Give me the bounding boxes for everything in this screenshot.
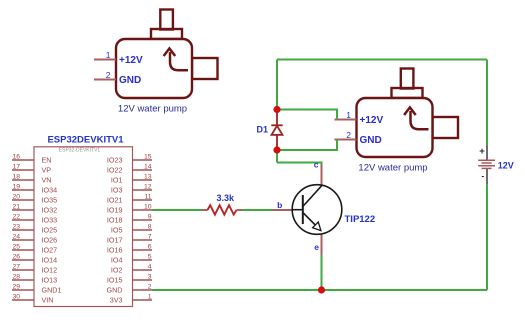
- svg-text:11: 11: [144, 194, 151, 201]
- svg-text:IO16: IO16: [107, 245, 123, 254]
- svg-text:21: 21: [13, 204, 21, 211]
- svg-text:b: b: [277, 200, 282, 210]
- M1 pin 1 label +12V: [119, 55, 143, 66]
- ESP32 pin 6 (IO16): [107, 244, 152, 255]
- ESP32 pin 25 (IO27): [12, 244, 57, 255]
- svg-text:1: 1: [346, 110, 351, 120]
- svg-text:IO13: IO13: [42, 275, 58, 284]
- svg-text:14: 14: [144, 164, 152, 171]
- svg-text:7: 7: [148, 234, 152, 241]
- ESP32 module body ESP32DEVKITV1: [34, 147, 133, 307]
- transistor Q1 name label TIP122: [345, 214, 376, 225]
- resistor R1 3.3k: [202, 205, 242, 214]
- svg-text:IO14: IO14: [42, 255, 58, 264]
- wire to transistor collector: [277, 163, 322, 166]
- svg-text:GND: GND: [119, 75, 141, 86]
- svg-text:IO35: IO35: [42, 195, 58, 204]
- svg-text:29: 29: [13, 284, 21, 291]
- svg-text:1: 1: [106, 50, 111, 60]
- wire diode cathode node to pump M2 pin1: [277, 110, 337, 120]
- svg-text:2: 2: [106, 70, 111, 80]
- ESP32 pin 18 (VN): [12, 174, 52, 185]
- transistor Q1 TIP122 symbol: [292, 185, 342, 235]
- svg-text:25: 25: [13, 244, 21, 251]
- svg-text:27: 27: [13, 264, 21, 271]
- ESP32 pin 13 (IO1): [111, 174, 152, 185]
- motor M1 12V water pump body: [116, 10, 218, 99]
- M1 caption 12V water pump: [118, 104, 187, 115]
- ESP32 pin 14 (IO22): [107, 164, 152, 175]
- svg-text:GND1: GND1: [42, 285, 62, 294]
- svg-text:3.3k: 3.3k: [217, 193, 236, 203]
- svg-text:TIP122: TIP122: [345, 214, 376, 225]
- junction node diode anode / pump M2 pin2 / collector: [273, 146, 280, 153]
- svg-text:2: 2: [346, 130, 351, 140]
- svg-text:IO32: IO32: [42, 205, 58, 214]
- M1 pin 2 (GND) lead: [94, 70, 116, 80]
- svg-text:VN: VN: [42, 175, 52, 184]
- svg-text:+12V: +12V: [119, 55, 143, 66]
- transistor Q1 emitter lead: [321, 234, 323, 256]
- svg-text:IO33: IO33: [42, 215, 58, 224]
- svg-text:-: -: [482, 172, 485, 181]
- diode D1 label: [257, 125, 269, 135]
- ESP32 pin 9 (IO18): [107, 214, 152, 225]
- svg-text:IO3: IO3: [111, 185, 123, 194]
- ESP32 pin 2 (GND): [107, 284, 152, 295]
- svg-text:IO26: IO26: [42, 235, 58, 244]
- svg-text:VIN: VIN: [42, 295, 54, 304]
- wire transistor emitter to ground rail: [321, 255, 323, 290]
- wire battery positive up: [486, 60, 488, 146]
- ESP32 pin 12 (IO3): [111, 184, 152, 195]
- ESP32 pin 23 (IO25): [12, 224, 57, 235]
- svg-text:IO19: IO19: [107, 205, 123, 214]
- ESP32 pin 28 (IO13): [12, 274, 57, 285]
- battery BT1 12V: [478, 146, 495, 185]
- M2 pin 1 label +12V: [360, 115, 384, 126]
- svg-text:9: 9: [148, 214, 152, 221]
- svg-text:16: 16: [13, 154, 21, 161]
- svg-text:18: 18: [13, 174, 21, 181]
- svg-text:28: 28: [13, 274, 21, 281]
- svg-text:IO23: IO23: [107, 155, 123, 164]
- ESP32 pin 15 (IO23): [107, 154, 152, 165]
- svg-text:ESP32DEVKITV1: ESP32DEVKITV1: [47, 134, 124, 145]
- ESP32 pin 26 (IO14): [12, 254, 57, 265]
- ESP32 pin 30 (VIN): [12, 294, 53, 305]
- ESP32 pin 24 (IO26): [12, 234, 57, 245]
- svg-text:30: 30: [13, 294, 21, 301]
- svg-text:IO27: IO27: [42, 245, 58, 254]
- svg-text:12V water pump: 12V water pump: [118, 104, 187, 115]
- ESP32 pin 3 (IO15): [107, 274, 152, 285]
- svg-text:1: 1: [148, 294, 152, 301]
- motor M2 12V water pump body: [357, 69, 459, 158]
- ESP32 pin 11 (IO21): [107, 194, 152, 205]
- svg-text:IO25: IO25: [42, 225, 58, 234]
- M2 pin 1 (+12V) lead: [335, 110, 357, 120]
- svg-text:12: 12: [144, 184, 152, 191]
- svg-text:IO12: IO12: [42, 265, 58, 274]
- svg-text:15: 15: [144, 154, 152, 161]
- wire battery negative to ground rail: [486, 184, 488, 290]
- resistor R1 value label 3.3k: [217, 193, 236, 203]
- svg-text:+: +: [479, 146, 485, 157]
- wire +12V down to diode cathode node: [276, 60, 278, 110]
- svg-text:10: 10: [144, 204, 152, 211]
- ESP32 pin 22 (IO33): [12, 214, 57, 225]
- svg-text:IO5: IO5: [111, 225, 123, 234]
- wire resistor to transistor base: [242, 209, 273, 211]
- svg-text:ESP32-DEVKITV1: ESP32-DEVKITV1: [59, 148, 101, 154]
- ESP32 pin 20 (IO35): [12, 194, 57, 205]
- svg-text:GND: GND: [360, 135, 382, 146]
- transistor Q1 base lead: [273, 209, 294, 211]
- ESP32 pin 4 (IO2): [111, 264, 152, 275]
- svg-text:3V3: 3V3: [110, 295, 123, 304]
- svg-text:5: 5: [148, 254, 152, 261]
- svg-text:+12V: +12V: [360, 115, 384, 126]
- svg-text:IO34: IO34: [42, 185, 58, 194]
- wire ground rail: [152, 289, 487, 291]
- transistor Q1 pin label c: [314, 159, 319, 169]
- M2 caption 12V water pump: [358, 163, 427, 174]
- svg-text:IO1: IO1: [111, 175, 123, 184]
- M2 rotation arrow: [404, 107, 428, 129]
- svg-text:e: e: [314, 242, 319, 252]
- svg-text:2: 2: [148, 284, 152, 291]
- svg-text:IO22: IO22: [107, 165, 123, 174]
- battery BT1 value label 12V: [498, 160, 514, 170]
- svg-text:D1: D1: [257, 125, 269, 135]
- svg-text:3: 3: [148, 274, 152, 281]
- ESP32 pin 1 (3V3): [110, 294, 152, 305]
- svg-text:13: 13: [144, 174, 152, 181]
- transistor Q1 pin label e: [314, 242, 319, 252]
- M1 rotation arrow: [164, 48, 188, 70]
- ESP32 pin 10 (IO19): [107, 204, 152, 215]
- ESP32 pin 7 (IO17): [107, 234, 152, 245]
- svg-text:6: 6: [148, 244, 152, 251]
- svg-text:IO17: IO17: [107, 235, 123, 244]
- svg-text:19: 19: [13, 184, 21, 191]
- svg-text:4: 4: [148, 264, 152, 271]
- ESP32 pin 8 (IO5): [111, 224, 152, 235]
- svg-text:EN: EN: [42, 155, 52, 164]
- wire pump M2 pin2 to diode anode node: [277, 140, 337, 151]
- svg-text:IO18: IO18: [107, 215, 123, 224]
- svg-text:24: 24: [13, 234, 21, 241]
- svg-text:26: 26: [13, 254, 21, 261]
- ESP32 pin 16 (EN): [12, 154, 52, 165]
- svg-text:c: c: [314, 159, 319, 169]
- svg-text:IO15: IO15: [107, 275, 123, 284]
- M1 pin 1 (+12V) lead: [94, 50, 116, 60]
- M1 pin 2 label GND: [119, 75, 141, 86]
- wire diode anode node down: [276, 150, 278, 163]
- wire ESP32 pin10 to resistor: [152, 209, 202, 211]
- ESP32 pin 27 (IO12): [12, 264, 57, 275]
- svg-text:8: 8: [148, 224, 152, 231]
- svg-text:GND: GND: [107, 285, 123, 294]
- ESP32 pin 29 (GND1): [12, 284, 61, 295]
- svg-text:12V: 12V: [498, 160, 514, 170]
- diode D1: [271, 110, 282, 151]
- svg-text:IO21: IO21: [107, 195, 123, 204]
- svg-text:VP: VP: [42, 165, 52, 174]
- ESP32 pin 5 (IO4): [111, 254, 152, 265]
- ESP32 title label: [47, 134, 124, 145]
- svg-text:23: 23: [13, 224, 21, 231]
- wire +12V top rail: [277, 59, 487, 61]
- svg-text:IO4: IO4: [111, 255, 123, 264]
- M2 pin 2 (GND) lead: [335, 130, 357, 140]
- M2 pin 2 label GND: [360, 135, 382, 146]
- svg-text:12V water pump: 12V water pump: [358, 163, 427, 174]
- junction node diode cathode / +12V / pump M2 pin1: [273, 106, 280, 113]
- ESP32 pin 19 (IO34): [12, 184, 57, 195]
- svg-text:22: 22: [13, 214, 21, 221]
- transistor Q1 TIP122 collector lead: [321, 165, 323, 186]
- transistor Q1 pin label b: [277, 200, 282, 210]
- svg-text:17: 17: [13, 164, 21, 171]
- ESP32 pin 17 (VP): [12, 164, 51, 175]
- svg-text:20: 20: [13, 194, 21, 201]
- ESP32 pin 21 (IO32): [12, 204, 57, 215]
- junction node emitter / ground rail: [318, 286, 325, 293]
- svg-text:IO2: IO2: [111, 265, 123, 274]
